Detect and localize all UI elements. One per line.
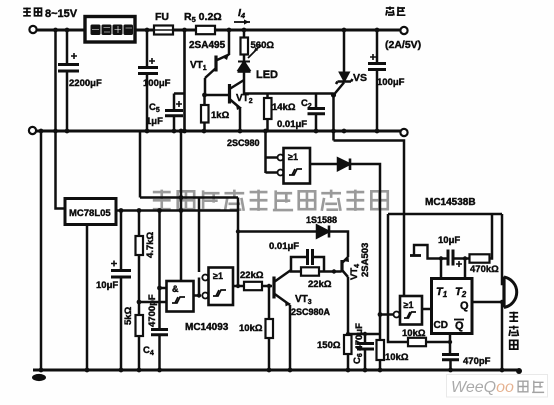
node VT3 base <box>267 284 271 288</box>
svg-text:4.7kΩ: 4.7kΩ <box>145 232 156 258</box>
wire mid rail <box>36 130 402 133</box>
svg-text:0.01μF: 0.01μF <box>269 241 299 252</box>
wire C5 branch x184 <box>183 30 186 131</box>
resistor 560ohm <box>243 30 246 38</box>
svg-text:I4: I4 <box>238 7 246 20</box>
wire diode to x380 drop <box>350 164 380 334</box>
regulator block 稳压电源 U0 <box>85 17 135 43</box>
svg-text:VT1: VT1 <box>190 60 207 72</box>
wire feedback to diode <box>238 230 317 233</box>
svg-text:4700pF: 4700pF <box>147 294 158 327</box>
terminal input - <box>29 127 36 134</box>
terminal input + <box>29 26 36 33</box>
capacitor 470pF <box>442 353 459 356</box>
svg-text:VT2: VT2 <box>236 93 253 105</box>
resistor 10k VT3 base <box>268 286 271 319</box>
svg-text:&: & <box>172 284 179 294</box>
svg-text:14kΩ: 14kΩ <box>272 102 296 113</box>
svg-text:2SC980A: 2SC980A <box>291 307 331 317</box>
node VT1/VT2 base <box>202 93 207 98</box>
wire feedback vertical x238 <box>237 198 240 287</box>
wire buzzer to ground <box>501 302 504 370</box>
resistor 14k <box>266 94 269 99</box>
gate U3a NAND schmitt <box>167 281 194 312</box>
capacitor 10uF reg output <box>120 211 123 271</box>
wire gate1 upper input <box>160 287 167 290</box>
wire 4538 top boundary <box>388 213 502 216</box>
wire buzzer top feed <box>502 214 504 284</box>
resistor 1k bias <box>203 95 206 105</box>
label 蜂鸣器 <box>509 312 519 350</box>
resistor 150ohm <box>344 335 352 354</box>
svg-text:1μF: 1μF <box>146 116 163 127</box>
svg-text:2SC980: 2SC980 <box>227 138 260 148</box>
wire gate2 output node <box>233 285 238 288</box>
svg-text:Q: Q <box>460 300 469 312</box>
wire gate2 feed from 5V line <box>198 198 201 273</box>
wire base link to VT2 <box>205 94 230 97</box>
capacitor 2200uF <box>66 30 69 64</box>
wire VT1 collector to node <box>204 78 207 95</box>
wire 5V output line <box>116 209 238 212</box>
svg-text:≥1: ≥1 <box>288 152 298 162</box>
wire x388 drop to CD net <box>388 214 408 342</box>
svg-text:MC78L05: MC78L05 <box>69 208 111 219</box>
trigger pin stub <box>410 254 421 257</box>
wire zener node drop to logic feed <box>332 95 335 141</box>
wire upper link line y197 <box>140 131 238 198</box>
svg-text:FU: FU <box>155 11 169 23</box>
wire Q to buzzer <box>472 301 504 304</box>
svg-text:100μF: 100μF <box>377 77 405 88</box>
wire gate4 out to FF <box>422 308 432 311</box>
svg-text:10μF: 10μF <box>96 280 118 291</box>
wire RC tap to gate1 input <box>139 301 166 304</box>
node ground rail dots <box>39 368 505 373</box>
svg-text:C2: C2 <box>301 98 312 110</box>
gate U4b OR schmitt <box>380 313 394 316</box>
node osc RC tap <box>137 300 142 305</box>
svg-text:1kΩ: 1kΩ <box>211 110 230 121</box>
gate U4a OR schmitt <box>278 155 284 161</box>
svg-text:10kΩ: 10kΩ <box>385 352 409 363</box>
wire VT2 emitter feed <box>244 80 334 94</box>
capacitor 100uF input <box>146 30 149 67</box>
resistor 10k VT4 load <box>379 334 382 340</box>
svg-text:LED: LED <box>256 69 278 81</box>
svg-text:C6 470μF: C6 470μF <box>352 323 365 364</box>
svg-text:8~15V: 8~15V <box>45 8 78 20</box>
svg-text:1S1588: 1S1588 <box>306 215 337 225</box>
node dots on 5V line <box>119 195 184 213</box>
svg-text:10μF: 10μF <box>438 235 460 246</box>
wire MC78L05 gnd pin <box>86 225 89 371</box>
capacitor 100uF output <box>376 30 379 63</box>
wire FF bottom pin / CD net <box>449 334 452 355</box>
label 直流8~15V <box>23 8 41 17</box>
svg-text:10kΩ: 10kΩ <box>402 328 426 339</box>
watermark WeeQoo box <box>447 375 548 398</box>
svg-text:CD: CD <box>434 320 448 331</box>
resistor 22k fb <box>291 270 301 272</box>
svg-text:MC14093: MC14093 <box>185 322 229 333</box>
zener diode VS <box>343 30 346 73</box>
svg-text:WeeQoo: WeeQoo <box>451 379 514 396</box>
node feedback tap <box>236 229 240 233</box>
resistor 5k <box>138 255 141 315</box>
svg-text:2SA495: 2SA495 <box>189 40 226 51</box>
svg-text:10kΩ: 10kΩ <box>239 323 263 334</box>
node zener bottom <box>331 92 336 97</box>
node timing pins <box>439 256 443 260</box>
node rail dots mid <box>39 129 380 134</box>
wire VT4 collector node <box>348 333 380 336</box>
wire tap rail y140 <box>334 141 405 297</box>
gate U3b NAND schmitt <box>202 275 208 281</box>
svg-text:VS: VS <box>353 72 367 84</box>
terminal output + <box>400 27 407 34</box>
svg-text:5kΩ: 5kΩ <box>123 306 134 325</box>
node VT4 base <box>332 269 336 273</box>
resistor 4.7k <box>138 211 141 237</box>
svg-text:22kΩ: 22kΩ <box>240 270 264 281</box>
svg-text:R5 0.2Ω: R5 0.2Ω <box>184 11 222 24</box>
capacitor C2 0.01uF <box>315 94 318 109</box>
wire gate1 out to gate2 in <box>194 278 200 296</box>
wire trigger hump <box>414 245 447 259</box>
svg-text:≥1: ≥1 <box>404 300 414 310</box>
svg-text:470pF: 470pF <box>463 356 491 367</box>
capacitor C6 470uF <box>364 334 367 343</box>
wire gate3 output <box>310 163 338 166</box>
regulator U2 MC78L05 <box>65 199 116 225</box>
resistor 470k <box>470 254 490 262</box>
diode D2 <box>338 159 350 171</box>
resistor 22k osc <box>238 285 244 288</box>
wire VT3 collector net <box>291 257 306 270</box>
buzzer BZ <box>502 277 505 308</box>
svg-text:Q: Q <box>455 320 464 332</box>
capacitor C4 4700pF <box>158 211 161 330</box>
node gate4 input tap <box>378 312 383 317</box>
svg-text:560Ω: 560Ω <box>251 40 275 51</box>
svg-text:MC14538B: MC14538B <box>425 197 476 208</box>
svg-text:VT3: VT3 <box>295 294 312 306</box>
svg-text:C5: C5 <box>149 102 160 114</box>
label 输出 <box>386 7 406 16</box>
ground symbol <box>32 374 46 381</box>
svg-text:≥1: ≥1 <box>213 271 223 281</box>
wire left drop x55 to regulator input <box>56 30 66 209</box>
terminal output - <box>400 129 407 136</box>
flipflop U5 MC14538B <box>432 279 473 334</box>
svg-text:(2A/5V): (2A/5V) <box>385 39 421 51</box>
svg-text:100μF: 100μF <box>143 78 171 89</box>
svg-text:22kΩ: 22kΩ <box>308 279 332 290</box>
watermark 杭州将睿科技有限公司 <box>153 190 388 211</box>
svg-text:150Ω: 150Ω <box>317 340 341 351</box>
terminal ground right end <box>516 368 522 374</box>
wire left drop x41 to ground <box>40 131 43 370</box>
resistor 10k CD <box>408 338 426 346</box>
node rail dots top <box>53 28 379 33</box>
wire top positive rail <box>36 29 402 32</box>
LED D1 <box>238 62 250 71</box>
wire diode to VT4 emitter <box>329 232 348 258</box>
wire FF top pins <box>441 259 465 279</box>
svg-text:2200μF: 2200μF <box>69 78 102 89</box>
svg-text:0.01μF: 0.01μF <box>277 119 307 130</box>
wire ground rail <box>33 369 520 372</box>
wire gate1 top feed x182 <box>180 131 183 281</box>
svg-text:C4: C4 <box>143 345 154 357</box>
svg-text:470kΩ: 470kΩ <box>470 264 499 275</box>
transistor VT4 2SA503 <box>340 260 343 273</box>
wire gate3 input feed <box>266 131 278 173</box>
svg-text:2SA503: 2SA503 <box>360 243 371 277</box>
capacitor C5 1uF <box>174 92 185 95</box>
